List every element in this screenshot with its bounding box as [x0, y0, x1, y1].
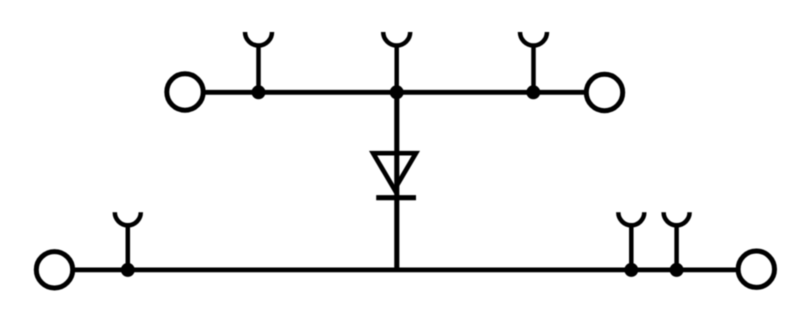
- test socket TP5 arc: [618, 212, 644, 225]
- test socket TP4 stem: [126, 225, 131, 270]
- test socket TP1 stem: [256, 46, 261, 93]
- terminal circle P2 (upper right): [586, 74, 622, 110]
- diode D1 triangle (anode): [373, 153, 416, 189]
- test socket TP6 arc: [664, 212, 690, 225]
- test socket TP4 arc: [115, 212, 141, 225]
- terminal circle P4 (lower right): [738, 251, 774, 287]
- junction dot node E: [624, 263, 638, 277]
- junction dot node F: [670, 263, 684, 277]
- terminal circle P3 (lower left): [36, 252, 72, 288]
- junction dot node A: [252, 85, 266, 99]
- test socket TP2 stem: [394, 46, 399, 93]
- test socket TP1 arc: [245, 32, 272, 46]
- test socket TP3 stem: [531, 46, 536, 93]
- junction dot node D: [121, 263, 135, 277]
- terminal circle P1 (upper left): [167, 74, 203, 110]
- wire top rail: [203, 90, 586, 95]
- test socket TP6 stem: [674, 225, 679, 270]
- test socket TP5 stem: [629, 225, 634, 270]
- test socket TP2 arc: [383, 32, 410, 46]
- wire bottom rail: [73, 267, 739, 272]
- test socket TP3 arc: [520, 32, 547, 46]
- junction dot node C: [526, 85, 540, 99]
- diode D1 cathode bar: [376, 195, 416, 200]
- junction dot node B: [390, 85, 404, 99]
- wire diode branch vertical: [394, 92, 399, 270]
